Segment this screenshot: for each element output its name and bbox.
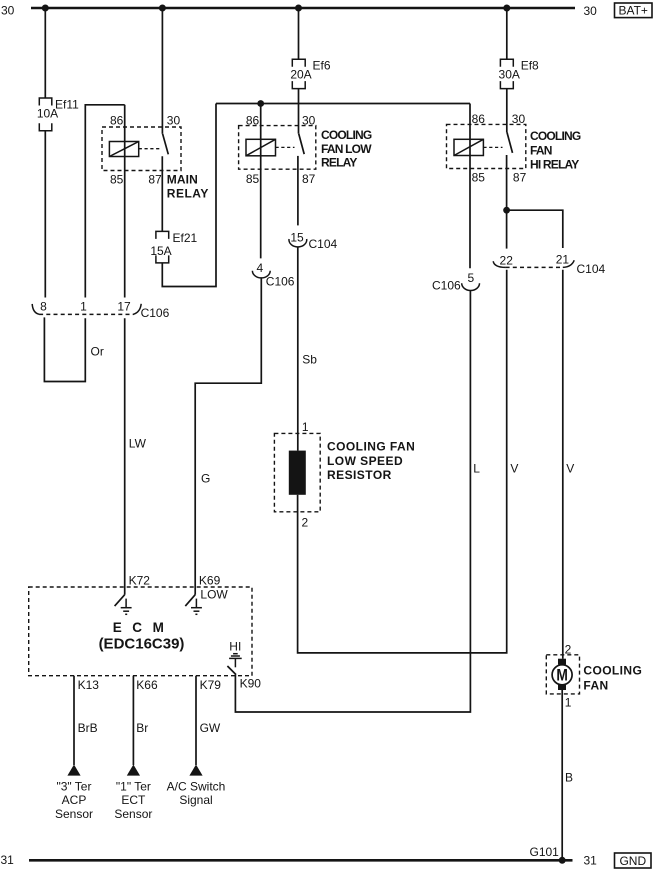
ECT sensor label [114, 779, 152, 821]
ECT sensor arrow [127, 765, 140, 776]
fuse Ef21 15A [150, 231, 197, 263]
wire rail to fuse Ef6 [298, 8, 300, 59]
svg-text:1: 1 [302, 420, 309, 434]
COOLING FAN name [583, 663, 642, 692]
svg-text:BAT+: BAT+ [618, 4, 647, 18]
wire bus to low relay coil 86-85 down to C106 pin 4 [260, 104, 262, 259]
ACP sensor arrow [67, 765, 80, 776]
low relay switch blade [299, 134, 305, 155]
svg-text:31: 31 [584, 854, 598, 868]
BAT+ terminal [615, 3, 653, 18]
svg-text:"1" Ter: "1" Ter [116, 779, 151, 793]
svg-text:Ef6: Ef6 [313, 58, 331, 72]
svg-text:V: V [510, 461, 518, 475]
svg-text:30: 30 [584, 4, 598, 18]
wire fuse Ef11 to C106 pin 8 [44, 131, 46, 298]
wire low relay pin 87 down to C104 pin 15 [297, 156, 299, 226]
hi relay coil [454, 139, 483, 155]
svg-text:86: 86 [472, 112, 486, 126]
svg-text:10A: 10A [37, 107, 58, 121]
svg-text:COOLING FAN: COOLING FAN [327, 440, 415, 454]
svg-text:LOW SPEED: LOW SPEED [327, 454, 403, 468]
low relay link dashes [276, 146, 295, 148]
svg-text:85: 85 [246, 172, 260, 186]
resistor R1 COOLING FAN LOW SPEED RESISTOR dashed box [274, 433, 320, 511]
fan motor M circle [552, 665, 572, 685]
svg-text:Ef8: Ef8 [521, 58, 539, 72]
svg-text:C106: C106 [266, 275, 295, 289]
svg-text:BrB: BrB [78, 721, 98, 735]
net 30 top rail [31, 7, 575, 10]
wire fuse Ef8 to hi relay pin 30 [506, 89, 508, 133]
wire C106 pin 1 up to main relay coil 86 [85, 105, 124, 298]
svg-text:21: 21 [556, 253, 570, 267]
svg-text:ACP: ACP [62, 793, 87, 807]
wire hi relay 87 jog to C104 pin 21 [507, 210, 563, 248]
svg-text:31: 31 [1, 853, 15, 867]
svg-text:Sb: Sb [302, 353, 317, 367]
svg-text:8: 8 [40, 299, 47, 313]
svg-text:COOLING: COOLING [321, 128, 372, 142]
svg-text:G: G [201, 472, 210, 486]
resistor element body [289, 451, 306, 495]
ECM K72 internal ground [121, 599, 132, 615]
GND terminal [615, 853, 652, 868]
svg-text:K69: K69 [199, 573, 221, 587]
connector C106 pin 4 [252, 261, 294, 288]
ECM K72 driver switch blade [115, 595, 125, 606]
wire L C106 pin 5 down and across to ECM K90 [235, 291, 470, 712]
svg-text:4: 4 [256, 261, 263, 275]
svg-text:86: 86 [246, 114, 260, 128]
wire BrB ECM K13 to ACP sensor [73, 676, 75, 765]
svg-text:5: 5 [468, 271, 475, 285]
low relay coil [246, 139, 276, 156]
A/C switch signal label [167, 779, 226, 807]
svg-text:FAN: FAN [583, 678, 608, 692]
fan motor brush top [558, 659, 566, 665]
relay K2 COOLING FAN LOW RELAY dashed box [239, 126, 316, 170]
svg-text:C104: C104 [309, 237, 338, 251]
fuse Ef6 20A [290, 58, 331, 88]
svg-text:30: 30 [302, 114, 316, 128]
svg-text:"3" Ter: "3" Ter [57, 779, 92, 793]
svg-text:87: 87 [148, 173, 162, 187]
svg-text:87: 87 [513, 170, 527, 184]
svg-text:22: 22 [500, 254, 514, 268]
wire fuse Ef21 to feed bus [162, 104, 216, 287]
svg-text:20A: 20A [290, 67, 311, 81]
svg-text:Signal: Signal [179, 793, 212, 807]
wire rail to main relay pin 30 [161, 8, 163, 134]
svg-text:GW: GW [200, 721, 221, 735]
relay U? MAIN RELAY dashed box [102, 127, 181, 171]
wire hi relay pin 87 down to C104 pin 22 [506, 155, 508, 249]
svg-text:GND: GND [619, 854, 646, 868]
wire resistor pin 2 to C104 pin 22 wire [298, 270, 507, 653]
hi relay switch blade [507, 132, 513, 153]
junction dot rail/Ef8 [503, 5, 510, 12]
net 31 ground rail [29, 859, 573, 862]
svg-text:E C M: E C M [113, 620, 168, 635]
main relay switch blade [163, 134, 169, 155]
svg-text:FAN: FAN [530, 143, 552, 157]
svg-text:30: 30 [1, 4, 15, 18]
svg-text:Sensor: Sensor [55, 807, 93, 821]
svg-text:C106: C106 [141, 306, 170, 320]
junction dot rail/Ef11 [42, 5, 49, 12]
svg-text:RELAY: RELAY [167, 186, 209, 200]
svg-text:K13: K13 [78, 678, 100, 692]
svg-text:87: 87 [302, 172, 316, 186]
svg-text:2: 2 [302, 516, 309, 530]
wire GW ECM K79 to A/C switch [195, 676, 197, 765]
svg-text:LW: LW [129, 437, 147, 451]
hi relay link dashes [483, 146, 502, 148]
svg-text:FAN LOW: FAN LOW [321, 142, 372, 156]
fuse Ef11 10A [37, 98, 79, 131]
svg-text:COOLING: COOLING [530, 129, 581, 143]
svg-text:C106: C106 [432, 278, 461, 292]
wire main relay coil 86-85 through to C106 pin 17 [124, 105, 126, 298]
connector C106 pins 8/1/17 [32, 299, 169, 320]
svg-text:COOLING: COOLING [583, 663, 642, 677]
svg-text:RELAY: RELAY [321, 155, 357, 169]
svg-text:30: 30 [167, 114, 181, 128]
COOLING FAN HI RELAY name [530, 129, 581, 171]
junction dot G101 [559, 857, 566, 864]
svg-text:L: L [473, 461, 480, 475]
svg-text:1: 1 [80, 299, 87, 313]
A/C switch arrow [189, 765, 202, 776]
MAIN RELAY name [167, 173, 209, 201]
svg-text:LOW: LOW [200, 587, 228, 601]
svg-text:K72: K72 [129, 573, 151, 587]
svg-text:15A: 15A [150, 244, 171, 258]
svg-text:30A: 30A [499, 67, 520, 81]
wire Sb C104 pin 15 to resistor pin 1 [297, 246, 299, 450]
svg-text:Sensor: Sensor [114, 807, 152, 821]
main relay coil [109, 142, 138, 157]
svg-text:30: 30 [512, 112, 526, 126]
wire bus corner into hi relay coil 86-85 down to C106 pin 5 [469, 104, 471, 269]
svg-text:Br: Br [136, 721, 148, 735]
svg-text:A/C Switch: A/C Switch [167, 779, 226, 793]
svg-text:Ef21: Ef21 [173, 231, 198, 245]
wire V C104 pin 21 to fan motor pin 2 [562, 270, 564, 659]
svg-text:M: M [556, 667, 568, 685]
svg-text:ECT: ECT [121, 793, 146, 807]
junction dot rail/main relay 30 [159, 5, 166, 12]
svg-text:K79: K79 [200, 678, 222, 692]
svg-text:MAIN: MAIN [167, 173, 198, 187]
svg-text:RESISTOR: RESISTOR [327, 468, 392, 482]
wire main relay pin 87 down [161, 156, 163, 231]
svg-text:C104: C104 [577, 262, 606, 276]
svg-text:86: 86 [110, 114, 124, 128]
fan motor brush bottom [558, 684, 566, 690]
ECM name [99, 620, 185, 653]
wire B fan motor pin 1 to ground rail [561, 690, 563, 860]
svg-text:HI RELAY: HI RELAY [530, 157, 579, 171]
ECM (EDC16C39) dashed box [29, 587, 252, 676]
wire rail to fuse Ef8 [506, 8, 508, 59]
junction dot hi relay 87 node [503, 207, 510, 214]
wire rail to fuse Ef11 [44, 8, 46, 98]
main relay link dashes [139, 148, 160, 150]
svg-text:15: 15 [290, 230, 304, 244]
connector C106 pin 5 [432, 271, 479, 292]
ECM K69 driver switch blade [185, 595, 195, 606]
wire Br ECM K66 to ECT sensor [132, 676, 134, 765]
COOLING FAN LOW RELAY name [321, 128, 372, 169]
junction dot rail/Ef6 [295, 5, 302, 12]
relay K3 COOLING FAN HI RELAY dashed box [447, 124, 526, 168]
svg-text:Ef11: Ef11 [55, 98, 79, 112]
wire fuse Ef6 to low relay pin 30 [298, 89, 300, 134]
COOLING FAN LOW SPEED RESISTOR name [327, 440, 415, 482]
ECM K90 internal ground inverted [229, 654, 242, 668]
motor M1 COOLING FAN dashed box [546, 655, 579, 694]
svg-text:17: 17 [117, 299, 131, 313]
junction dot bus/low relay 86 [257, 100, 264, 107]
svg-text:85: 85 [110, 173, 124, 187]
svg-text:K66: K66 [136, 678, 158, 692]
svg-text:V: V [566, 461, 574, 475]
wire LW C106 pin 17 to ECM K72 [124, 318, 126, 595]
ECM K69 internal ground [191, 599, 202, 615]
ECM K90 driver switch blade [227, 666, 236, 675]
relay feed bus wire [216, 103, 470, 105]
wire Or loop C106 pin 8 to pin 1 [44, 318, 85, 381]
svg-text:(EDC16C39): (EDC16C39) [99, 635, 185, 652]
svg-text:Or: Or [91, 345, 104, 359]
svg-text:85: 85 [472, 170, 486, 184]
svg-text:G101: G101 [530, 845, 560, 859]
svg-text:K90: K90 [240, 677, 262, 691]
svg-text:B: B [565, 770, 573, 784]
connector C104 pin 15 [289, 230, 338, 251]
svg-text:1: 1 [565, 695, 572, 709]
wire G C106 pin 4 to ECM K69 [195, 278, 261, 595]
fuse Ef8 30A [499, 58, 540, 88]
connector C104 pins 22/21 [493, 253, 605, 276]
svg-text:HI: HI [229, 639, 241, 653]
ACP sensor label [55, 779, 93, 821]
